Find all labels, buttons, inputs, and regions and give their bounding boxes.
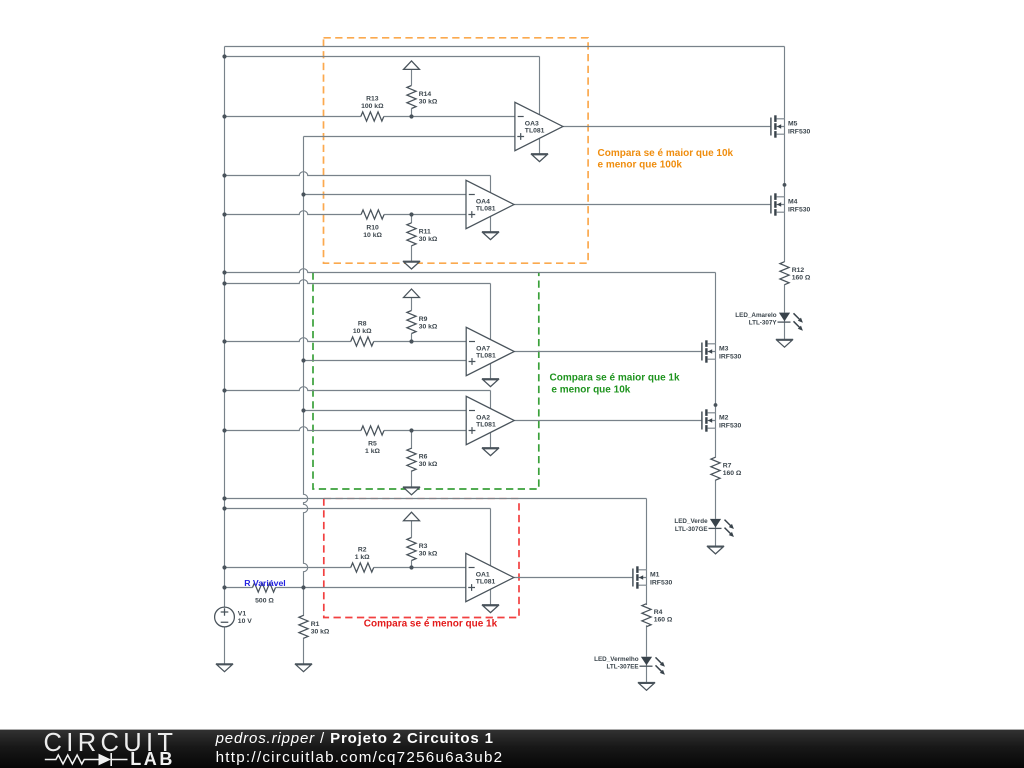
footer bar: [0, 730, 1024, 768]
wire: R1 to ground: [303, 638, 305, 664]
resistor R13: [361, 96, 384, 122]
svg-text:160 Ω: 160 Ω: [723, 470, 742, 477]
svg-text:R1: R1: [311, 621, 320, 628]
op-amp OA7: [466, 327, 514, 375]
footer title text: [215, 730, 504, 766]
wire: R7 to LED_Verde: [715, 480, 717, 519]
transistor M1 (IRF530 NMOS): [633, 566, 673, 588]
wire: OA3 output to M5 gate: [563, 126, 771, 128]
svg-text:1 kΩ: 1 kΩ: [365, 448, 380, 455]
svg-text:LED_Vermelho: LED_Vermelho: [594, 656, 639, 663]
svg-text:M4: M4: [788, 199, 798, 206]
junction on V+ rail y=214.5: [222, 212, 226, 216]
wire: R12 to LED_Amarelo: [784, 285, 786, 313]
wire: OA3 supply pins: [539, 115, 541, 154]
wire: OA1 supply pins: [490, 566, 492, 605]
resistor R7: [711, 457, 742, 480]
node label R Variavel: [244, 578, 286, 588]
wire: rail to R13: [225, 116, 361, 118]
wire: down to OA2 V+ pin: [490, 391, 492, 409]
resistor R6: [407, 448, 438, 471]
ground below LED_Amarelo: [776, 339, 793, 347]
wire: divider bus corner to OA3 non-inverting input: [304, 136, 515, 138]
junction M5-M4 node: [783, 183, 787, 187]
wire: R2 to OA1 inverting input: [374, 567, 466, 569]
wire: rail to OA3 V+: [225, 56, 540, 58]
junction on V+ rail y=272.5: [222, 270, 226, 274]
svg-text:LTL-307EE: LTL-307EE: [607, 664, 639, 671]
wire: M2 source to R7: [715, 428, 717, 457]
wire: OA7 output to M3 gate: [514, 351, 702, 353]
wire: down to M3 drain: [715, 273, 717, 344]
svg-text:100 kΩ: 100 kΩ: [361, 103, 384, 110]
resistor R Variavel (500 ohm): [253, 583, 276, 604]
svg-text:OA1: OA1: [476, 571, 490, 578]
wire: M5 source to M4 drain: [784, 134, 786, 197]
junction on V+ rail y=430.5: [222, 428, 226, 432]
svg-text:R11: R11: [419, 228, 431, 235]
ground below V1: [216, 664, 233, 672]
wire: VCC arrow to R9: [411, 297, 413, 310]
wire: rail to OA4 V+: [225, 172, 491, 176]
svg-text:R7: R7: [723, 463, 732, 470]
svg-text:R8: R8: [358, 321, 367, 328]
svg-text:R4: R4: [654, 609, 663, 616]
svg-text:Compara se é menor que 1k: Compara se é menor que 1k: [364, 618, 498, 629]
resistor R3: [407, 538, 438, 561]
svg-text:R5: R5: [368, 440, 377, 447]
resistor R11: [407, 223, 438, 246]
op-amp OA4: [466, 180, 514, 228]
wire: M1 source to R4: [646, 585, 648, 605]
junction at resistor node y=430.5: [409, 428, 413, 432]
wire: R5 node to R6: [411, 431, 413, 449]
junction on divider bus y=410.5: [301, 408, 305, 412]
wire: OA1 output to M1 gate: [514, 577, 633, 579]
svg-text:10 V: 10 V: [238, 618, 252, 625]
resistor R2: [351, 547, 374, 573]
wire: down to OA7 V+ pin: [490, 284, 492, 340]
svg-text:R10: R10: [366, 224, 379, 231]
wire: LED_Verde to ground: [715, 519, 717, 546]
transistor M3 (IRF530 NMOS): [702, 340, 742, 362]
wire: VCC arrow to R3: [411, 521, 413, 538]
svg-text:160 Ω: 160 Ω: [654, 617, 673, 624]
junction on V+ rail y=175.5: [222, 173, 226, 177]
CircuitLab logo text: [44, 729, 178, 768]
svg-text:TL081: TL081: [476, 352, 496, 359]
svg-text:1 kΩ: 1 kΩ: [355, 554, 370, 561]
wire: R10 to OA4 non-inverting input: [384, 214, 466, 216]
svg-text:R9: R9: [419, 316, 428, 323]
wire: OA2 supply pins: [490, 409, 492, 448]
svg-text:OA2: OA2: [476, 414, 490, 421]
wire: OA2 output to M2 gate: [514, 420, 702, 422]
svg-text:http://circuitlab.com/cq7256u6: http://circuitlab.com/cq7256u6a3ub2: [216, 749, 504, 766]
wire: LED_Amarelo to ground: [784, 313, 786, 339]
svg-text:OA4: OA4: [476, 198, 490, 205]
svg-text:LTL-307Y: LTL-307Y: [749, 320, 778, 327]
wire: rail to OA7 V+: [225, 280, 491, 284]
resistor R5: [361, 426, 384, 455]
wire: OA4 supply pins: [490, 193, 492, 232]
wire: down to OA3 V+ pin: [539, 57, 541, 115]
wire: divider node to R1: [303, 588, 305, 617]
junction at resistor node y=116.5: [409, 114, 413, 118]
svg-text:30 kΩ: 30 kΩ: [419, 461, 438, 468]
wire: rail to OA2 V+: [225, 387, 491, 391]
wire: down to M1 drain: [646, 499, 648, 570]
svg-text:TL081: TL081: [476, 205, 496, 212]
wire: R14 to R13 node: [411, 109, 413, 117]
wire: OA4 output to M4 gate: [514, 204, 771, 206]
ground OA1 V-: [482, 605, 499, 613]
svg-text:30 kΩ: 30 kΩ: [311, 628, 330, 635]
wire: rail to OA1 V+: [225, 508, 491, 510]
LED LED_Vermelho (LTL-307EE): [594, 656, 665, 675]
svg-text:30 kΩ: 30 kΩ: [419, 236, 438, 243]
svg-text:M2: M2: [719, 415, 729, 422]
wire: top rail to M5 drain: [225, 46, 785, 48]
svg-text:TL081: TL081: [476, 421, 496, 428]
ground OA2 V-: [482, 448, 499, 456]
transistor M5 (IRF530 NMOS): [771, 115, 811, 137]
wire: R11 to ground: [411, 246, 413, 262]
svg-text:IRF530: IRF530: [719, 353, 742, 360]
junction at resistor node y=567.5: [409, 565, 413, 569]
svg-text:TL081: TL081: [476, 578, 496, 585]
wire: rail to M3 drain: [225, 269, 716, 273]
wire: R9 to R8 node: [411, 334, 413, 342]
svg-text:OA7: OA7: [476, 345, 490, 352]
ground below R1: [295, 664, 312, 672]
svg-text:R6: R6: [419, 454, 428, 461]
svg-text:10 kΩ: 10 kΩ: [353, 328, 372, 335]
wire: LED_Vermelho to ground: [646, 657, 648, 682]
svg-text:R Variável: R Variável: [244, 578, 286, 588]
junction on divider bus y=360.5: [301, 358, 305, 362]
LED LED_Verde (LTL-307GE): [674, 518, 734, 537]
junction on V+ rail y=116.5: [222, 114, 226, 118]
CircuitLab logo icon (resistor + diode): [45, 753, 128, 766]
orange dashed group box: compara 10k-100k: [324, 38, 589, 263]
junction on V+ rail y=567.5: [222, 565, 226, 569]
transistor M2 (IRF530 NMOS): [702, 409, 742, 431]
wire: R6 to ground: [411, 470, 413, 487]
wire: down to OA4 V+ pin: [490, 176, 492, 193]
green dashed group box: compara 1k-10k: [313, 273, 539, 490]
svg-text:R14: R14: [419, 91, 432, 98]
svg-text:Compara se é maior que 1k: Compara se é maior que 1k: [550, 373, 680, 384]
ground below LED_Verde: [707, 546, 724, 554]
wire: rail to R2: [225, 567, 351, 569]
wire: OA7 supply pins: [490, 340, 492, 379]
wire: rail to R8: [225, 338, 351, 342]
wire: bus to OA2 inverting input: [304, 410, 467, 412]
junction on V+ rail y=56.5: [222, 54, 226, 58]
junction on V+ rail y=390.5: [222, 388, 226, 392]
wire: bus to OA7 non-inverting input: [304, 360, 467, 362]
junction at resistor node y=214.5: [409, 212, 413, 216]
svg-text:R13: R13: [366, 96, 379, 103]
resistor R12: [780, 262, 811, 285]
junction on V+ rail y=283.5: [222, 281, 226, 285]
wire: R10 node to R11: [411, 215, 413, 224]
wire: bus to OA4 inverting input: [304, 194, 467, 196]
resistor R9: [407, 311, 438, 334]
svg-text:IRF530: IRF530: [650, 579, 673, 586]
VCC supply arrow above R3: [404, 512, 420, 521]
svg-text:R3: R3: [419, 543, 428, 550]
wire: rail to M1 drain: [225, 498, 647, 500]
wire: M3 source to M2 drain: [715, 359, 717, 413]
svg-text:V1: V1: [238, 611, 247, 618]
wire: divider bus vertical (node between R Variavel and R1): [304, 137, 308, 588]
junction at resistor node y=341.5: [409, 339, 413, 343]
wire: R4 to LED_Vermelho: [646, 625, 648, 656]
svg-text:TL081: TL081: [525, 127, 545, 134]
svg-text:30 kΩ: 30 kΩ: [419, 98, 438, 105]
svg-text:e menor que 10k: e menor que 10k: [551, 384, 630, 395]
svg-text:LED_Amarelo: LED_Amarelo: [735, 312, 776, 319]
wire: V1 negative to ground: [224, 627, 226, 664]
ground below R6: [403, 487, 420, 495]
wire: down to M5 drain: [784, 47, 786, 119]
svg-text:LAB: LAB: [130, 749, 175, 768]
svg-text:500 Ω: 500 Ω: [255, 597, 274, 604]
annotation: orange comparison text: [598, 148, 734, 170]
LED LED_Amarelo (LTL-307Y): [735, 312, 803, 331]
transistor M4 (IRF530 NMOS): [771, 193, 811, 215]
svg-text:R12: R12: [792, 267, 805, 274]
wire: VCC arrow to R14: [411, 69, 413, 85]
wire: rail to R5: [225, 427, 362, 431]
svg-text:IRF530: IRF530: [719, 422, 742, 429]
svg-text:R2: R2: [358, 547, 367, 554]
ground below LED_Vermelho: [638, 683, 655, 691]
wire: rail to R10: [225, 211, 362, 215]
svg-text:M5: M5: [788, 121, 798, 128]
svg-text:pedros.ripper / Projeto 2 Circ: pedros.ripper / Projeto 2 Circuitos 1: [215, 730, 494, 747]
junction on V+ rail y=498.5: [222, 496, 226, 500]
annotation: green comparison text: [550, 373, 680, 396]
ground OA4 V-: [482, 232, 499, 240]
svg-text:LTL-307GE: LTL-307GE: [675, 526, 708, 533]
svg-text:Compara se é maior que 10k: Compara se é maior que 10k: [598, 148, 734, 159]
ground OA7 V-: [482, 379, 499, 387]
annotation: red comparison text: [364, 618, 498, 629]
junction on V+ rail y=341.5: [222, 339, 226, 343]
svg-text:IRF530: IRF530: [788, 206, 811, 213]
junction on divider bus y=587.5: [301, 585, 305, 589]
junction on V+ rail y=508.5: [222, 506, 226, 510]
op-amp OA3: [515, 102, 563, 150]
ground OA3 V-: [531, 154, 548, 162]
resistor R10: [361, 210, 384, 239]
wire: R Variavel to OA1 non-inverting input: [276, 587, 466, 589]
wire: R8 to OA7 inverting input: [374, 341, 467, 343]
svg-text:M3: M3: [719, 346, 729, 353]
svg-text:30 kΩ: 30 kΩ: [419, 550, 438, 557]
wire: down to OA1 V+ pin: [490, 509, 492, 566]
wire: M4 source to R12: [784, 212, 786, 262]
resistor R8: [351, 321, 374, 347]
svg-text:30 kΩ: 30 kΩ: [419, 323, 438, 330]
svg-text:160 Ω: 160 Ω: [792, 275, 811, 282]
VCC supply arrow above R9: [404, 289, 420, 298]
op-amp OA2: [466, 396, 514, 444]
svg-text:M1: M1: [650, 572, 660, 579]
junction on divider bus y=194.5: [301, 192, 305, 196]
resistor R1: [299, 615, 330, 638]
red dashed group box: compara <1k: [324, 499, 519, 618]
wire: rail to R Variavel: [225, 587, 253, 589]
wire: R13 to OA3 inverting input: [384, 116, 515, 118]
svg-text:LED_Verde: LED_Verde: [674, 518, 708, 525]
wire: main V+ rail from top corner down to V1: [224, 47, 226, 608]
ground below R11: [403, 261, 420, 269]
svg-text:OA3: OA3: [525, 120, 539, 127]
svg-text:e menor que 100k: e menor que 100k: [598, 159, 683, 170]
wire: R5 to OA2 non-inverting input: [384, 430, 466, 432]
op-amp OA1: [466, 553, 514, 601]
junction M3-M2 node: [714, 403, 718, 407]
voltage source V1 10V: [215, 607, 253, 627]
resistor R4: [642, 604, 673, 627]
junction on V+ rail y=587.5: [222, 585, 226, 589]
resistor R14: [407, 86, 438, 109]
svg-text:10 kΩ: 10 kΩ: [363, 232, 382, 239]
svg-text:IRF530: IRF530: [788, 128, 811, 135]
wire: R3 to R2 node: [411, 560, 413, 567]
VCC supply arrow above R14: [404, 61, 420, 70]
